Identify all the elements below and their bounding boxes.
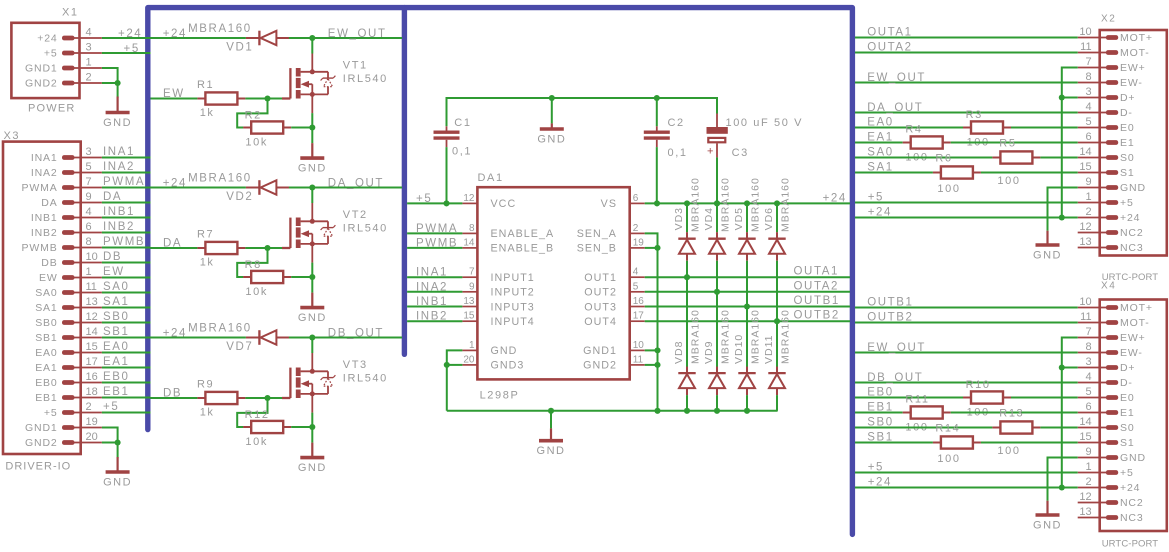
capacitor C3 100 uF 50 V (polarized) [707, 114, 728, 158]
DA1 pin 13 INPUT3 [462, 306, 477, 308]
wire DB from bus to R9 [151, 397, 198, 399]
resistor R12 10k [243, 421, 291, 433]
X4 pin 1 +5 [1106, 470, 1118, 475]
svg-text:SB0: SB0 [103, 311, 130, 323]
svg-text:+5: +5 [1120, 467, 1134, 479]
svg-text:10k: 10k [245, 137, 268, 149]
svg-text:EB1: EB1 [35, 392, 57, 404]
svg-text:1: 1 [86, 57, 92, 69]
svg-text:15: 15 [463, 311, 475, 322]
svg-text:DB_OUT: DB_OUT [867, 372, 923, 384]
svg-text:EA1: EA1 [867, 132, 894, 144]
svg-text:1k: 1k [200, 257, 215, 269]
svg-text:R6: R6 [935, 153, 952, 165]
svg-text:E0: E0 [1120, 122, 1135, 134]
svg-text:10: 10 [633, 340, 645, 351]
svg-text:NC2: NC2 [1120, 227, 1144, 239]
diode VD2 MBRA160 [246, 180, 290, 195]
wire VD4 cathode to +24 rail [716, 203, 718, 232]
svg-text:EW+: EW+ [1120, 332, 1146, 344]
svg-text:R3: R3 [966, 109, 983, 121]
svg-text:INB1: INB1 [103, 206, 135, 218]
diode VD6 MBRA160 (flyback high side) [768, 232, 785, 261]
svg-text:EA0: EA0 [35, 347, 57, 359]
X4 pin 15 S1 [1106, 440, 1118, 445]
svg-text:1k: 1k [200, 107, 215, 119]
wire SB1 from bus to R14 [855, 442, 933, 444]
wire OUTB1 from DA1 OUT3 to bus [645, 306, 850, 308]
wire drain of VT2 up to DA_OUT [311, 188, 313, 204]
junction GND1 [654, 347, 660, 353]
junction source/R2 [309, 124, 315, 130]
wire SB0 from X3 to bus [102, 322, 151, 324]
svg-text:R2: R2 [245, 110, 262, 122]
wire X2 EW+ pull to +24 column [1062, 68, 1078, 218]
wire VD8 anode to ground rail [686, 395, 688, 411]
wire VD5 anode to OUT3 [746, 261, 748, 307]
svg-text:10k: 10k [245, 286, 268, 298]
X2 pin 12 NC2 [1106, 230, 1118, 235]
svg-text:D+: D+ [1120, 92, 1135, 104]
wire R1 to gate [245, 98, 282, 100]
diode VD5 MBRA160 (flyback high side) [738, 232, 755, 261]
junction SEN_B [654, 245, 660, 251]
junction +24 / pull column [1059, 214, 1065, 220]
svg-text:+5: +5 [44, 407, 58, 419]
X3 pin 2 +5 [62, 410, 75, 415]
svg-text:MBRA160: MBRA160 [720, 177, 732, 232]
DA1 pin 6 VS [630, 202, 645, 204]
wire source of VT3 down to ground [311, 413, 313, 443]
svg-text:INB1: INB1 [31, 212, 58, 224]
svg-text:8: 8 [1085, 341, 1091, 353]
X3 pin 11 SA0 [62, 290, 75, 295]
X4 pin 7 EW+ [1106, 335, 1118, 340]
svg-text:DRIVER-IO: DRIVER-IO [5, 461, 71, 473]
svg-text:19: 19 [86, 416, 98, 428]
resistor R8 10k [243, 271, 291, 283]
svg-text:+24: +24 [37, 33, 57, 45]
wire +24 bus to VD7 [151, 337, 246, 339]
junction +24 / pull column [1059, 484, 1065, 490]
svg-text:EB1: EB1 [103, 386, 130, 398]
svg-text:SB0: SB0 [867, 417, 894, 429]
junction source/R12 [309, 424, 315, 430]
svg-text:SB1: SB1 [867, 432, 894, 444]
X2 pin 15 S1 [1106, 170, 1118, 175]
svg-text:S1: S1 [1120, 167, 1135, 179]
X3 pin 5 INA2 [62, 170, 75, 175]
wire R2 to source [291, 127, 312, 129]
svg-text:PWMA: PWMA [22, 182, 58, 194]
svg-text:4: 4 [1085, 371, 1091, 383]
svg-text:14: 14 [86, 326, 98, 338]
svg-text:OUTA2: OUTA2 [794, 280, 840, 292]
X3 pin 14 SB1 [62, 335, 75, 340]
svg-text:MBRA160: MBRA160 [780, 309, 792, 364]
svg-text:S0: S0 [1120, 152, 1135, 164]
wire X4 EW+ pull to +24 column [1062, 338, 1078, 488]
svg-text:GND1: GND1 [25, 63, 58, 75]
wire VD4 anode to OUT2 [716, 261, 718, 292]
connector X1 POWER [11, 23, 79, 98]
svg-text:MBRA160: MBRA160 [720, 309, 732, 364]
svg-text:4: 4 [633, 267, 639, 278]
svg-text:6: 6 [633, 193, 639, 204]
svg-text:OUTB2: OUTB2 [867, 312, 913, 324]
wire VD6 anode to OUT4 [776, 261, 778, 322]
wire X1 GND1/GND2 to ground [102, 68, 118, 98]
wire R11 to X4 pin [951, 412, 1078, 414]
DA1 pin 12 VCC [462, 202, 477, 204]
diode VD10 MBRA160 (flyback low side) [738, 367, 755, 396]
svg-text:+24: +24 [118, 28, 142, 40]
X2 pin 4 D- [1106, 110, 1118, 115]
wire +24 from X1 to VD1 [102, 37, 246, 39]
wire X4 GND to ground [1048, 458, 1078, 501]
svg-text:VS: VS [601, 198, 617, 210]
svg-text:SB0: SB0 [35, 317, 57, 329]
wire top rail to ground symbol [551, 98, 553, 123]
X3 pin 10 DB [62, 260, 75, 265]
junction OUT3 / diode column [744, 303, 750, 309]
wire INB2 from bus to DA1 [407, 320, 462, 322]
svg-text:1: 1 [1085, 191, 1091, 203]
svg-text:GND: GND [103, 477, 132, 489]
wire R3 to X2 pin [1011, 127, 1078, 129]
wire top ground rail [447, 98, 718, 126]
svg-text:INB1: INB1 [416, 296, 448, 308]
svg-text:SB1: SB1 [35, 332, 57, 344]
wire DA_OUT to X2 D- [855, 112, 1078, 114]
wire diode column down to VD8 [686, 277, 688, 373]
X3 pin 20 GND2 [62, 440, 75, 445]
DA1 pin 10 GND1 [630, 349, 645, 351]
svg-text:EW+: EW+ [1120, 62, 1146, 74]
svg-text:17: 17 [86, 356, 98, 368]
svg-text:GND: GND [298, 462, 327, 474]
junction C2/+24 rail [654, 200, 660, 206]
wire gate junction to R12 [237, 398, 267, 427]
DA1 pin 4 OUT1 [630, 276, 645, 278]
DA1 pin 16 OUT3 [630, 306, 645, 308]
diode VD1 MBRA160 [246, 31, 290, 46]
svg-text:19: 19 [633, 237, 645, 248]
svg-text:VD7: VD7 [226, 341, 253, 353]
wire C2 to +24 rail [656, 147, 658, 203]
svg-text:EW_OUT: EW_OUT [867, 72, 926, 84]
svg-text:PWMA: PWMA [103, 176, 145, 188]
svg-text:R14: R14 [935, 423, 960, 435]
svg-text:6: 6 [1085, 401, 1091, 413]
svg-text:8: 8 [86, 236, 92, 248]
svg-text:EA0: EA0 [103, 341, 130, 353]
svg-text:X1: X1 [62, 7, 79, 19]
svg-text:3: 3 [1085, 86, 1091, 98]
svg-text:MBRA160: MBRA160 [188, 323, 252, 335]
svg-text:GND: GND [537, 445, 566, 457]
wire source of VT1 down to ground [311, 113, 313, 143]
svg-text:15: 15 [1079, 161, 1091, 173]
svg-text:+24: +24 [823, 192, 847, 204]
transistor VT2 IRL540 [282, 203, 335, 263]
svg-text:+5: +5 [124, 43, 140, 55]
svg-text:R9: R9 [197, 379, 214, 391]
X2 pin 10 MOT+ [1106, 35, 1118, 40]
svg-text:EW: EW [103, 266, 125, 278]
svg-text:GND2: GND2 [583, 360, 617, 372]
junction C3/+24 rail [714, 200, 720, 206]
svg-text:+: + [707, 146, 715, 158]
wire X2 GND to ground [1048, 188, 1078, 231]
svg-text:3: 3 [86, 146, 92, 158]
svg-text:2: 2 [86, 72, 92, 84]
junction gate VT3 [264, 395, 270, 401]
svg-text:2: 2 [86, 401, 92, 413]
X2 pin 7 EW+ [1106, 65, 1118, 70]
svg-text:R13: R13 [999, 408, 1024, 420]
wire X2 D+ stub [1062, 97, 1078, 99]
svg-text:7: 7 [1085, 56, 1091, 68]
ground symbol VT1 source [300, 143, 324, 158]
svg-text:OUTB2: OUTB2 [794, 310, 840, 322]
wire EB1 from bus to R11 [855, 412, 903, 414]
wire INA1 from X3 to bus [102, 157, 151, 159]
svg-text:DA_OUT: DA_OUT [328, 178, 384, 190]
svg-text:VD1: VD1 [226, 42, 253, 54]
capacitor C2 0,1 [644, 126, 670, 147]
X4 pin 10 MOT+ [1106, 305, 1118, 310]
resistor R1 1k [197, 92, 245, 104]
wire EA1 from X3 to bus [102, 367, 151, 369]
junction +24 rail / VD3 [684, 200, 690, 206]
wire +24 rail from VS to bus [645, 202, 850, 204]
svg-text:POWER: POWER [28, 103, 76, 115]
X2 pin 6 E1 [1106, 140, 1118, 145]
wire DB_OUT to X4 D- [855, 382, 1078, 384]
svg-text:DA1: DA1 [478, 172, 504, 184]
IC DA1 L298P body [477, 187, 629, 379]
ground symbol X4 [1036, 501, 1060, 515]
svg-text:100: 100 [937, 453, 960, 465]
X4 pin 5 E0 [1106, 395, 1118, 400]
wire EW_OUT to X2 EW- [855, 82, 1078, 84]
wire EA0 from X3 to bus [102, 352, 151, 354]
X3 pin 7 PWMA [62, 185, 75, 190]
svg-text:GND1: GND1 [25, 422, 58, 434]
svg-text:INA2: INA2 [31, 167, 58, 179]
junction EW_OUT [309, 35, 315, 41]
DA1 pin 20 GND3 [462, 364, 477, 366]
resistor R3 100 [963, 121, 1011, 133]
diode VD4 MBRA160 (flyback high side) [708, 232, 725, 261]
wire X3 GND1/GND2 to ground [102, 428, 118, 459]
svg-text:11: 11 [86, 281, 97, 293]
wire OUTB1 to X4 MOT+ [855, 307, 1078, 309]
svg-text:VD11: VD11 [763, 335, 775, 365]
wire INB1 from bus to DA1 [407, 306, 462, 308]
wire R13 to X4 pin [1040, 427, 1077, 429]
svg-text:INA2: INA2 [103, 161, 135, 173]
svg-text:8: 8 [469, 223, 475, 234]
X2 pin 11 MOT- [1106, 50, 1118, 55]
svg-text:EB1: EB1 [867, 402, 894, 414]
svg-text:13: 13 [86, 296, 98, 308]
transistor VT1 IRL540 [282, 54, 335, 114]
svg-text:OUTA1: OUTA1 [794, 266, 840, 278]
DA1 pin 14 ENABLE_B [462, 247, 477, 249]
junction +24 rail / VD5 [744, 200, 750, 206]
svg-text:INA2: INA2 [416, 281, 448, 293]
svg-text:D-: D- [1120, 107, 1133, 119]
svg-text:10: 10 [1079, 296, 1091, 308]
resistor R2 10k [243, 121, 291, 133]
wire VD9 anode to ground rail [716, 395, 718, 411]
X2 pin 2 +24 [1106, 215, 1118, 220]
svg-text:MOT+: MOT+ [1120, 32, 1153, 44]
wire EW from X3 to bus [102, 277, 151, 279]
wire DB_OUT to bus [289, 337, 402, 339]
junction D+ / +24 column [1059, 94, 1065, 100]
svg-text:GND: GND [1120, 182, 1146, 194]
wire GND2 to ground column [645, 364, 658, 366]
svg-text:VD6: VD6 [763, 207, 775, 230]
svg-text:INB2: INB2 [103, 221, 135, 233]
svg-text:R8: R8 [245, 259, 262, 271]
svg-text:EW-: EW- [1120, 347, 1143, 359]
wire X4 D+ stub [1062, 367, 1078, 369]
X2 pin 13 NC3 [1106, 245, 1118, 250]
bus frame (top horizontal + left vertical) [148, 8, 853, 535]
wire R6 to X2 pin [981, 172, 1078, 174]
X2 pin 9 GND [1106, 185, 1118, 190]
resistor R9 1k [197, 392, 245, 404]
X4 pin 11 MOT- [1106, 320, 1118, 325]
svg-text:5: 5 [1085, 386, 1091, 398]
svg-text:INPUT2: INPUT2 [491, 287, 535, 299]
X1 pin 3 +5 [62, 51, 75, 56]
svg-text:GND2: GND2 [25, 437, 58, 449]
svg-text:EA0: EA0 [867, 117, 894, 129]
junction source/R8 [309, 274, 315, 280]
svg-text:INA1: INA1 [31, 152, 58, 164]
diode VD3 MBRA160 (flyback high side) [678, 232, 695, 261]
X4 pin 12 NC2 [1106, 500, 1118, 505]
junction top rail / gnd stub [549, 95, 555, 101]
svg-text:SEN_A: SEN_A [577, 228, 617, 240]
svg-text:+5: +5 [868, 462, 884, 474]
svg-text:GND: GND [491, 345, 518, 357]
svg-text:100: 100 [997, 445, 1020, 457]
svg-text:1k: 1k [200, 407, 215, 419]
svg-text:VD2: VD2 [226, 191, 253, 203]
svg-text:VT1: VT1 [343, 60, 368, 72]
X4 pin 4 D- [1106, 380, 1118, 385]
bus middle vertical [402, 8, 407, 355]
svg-text:7: 7 [86, 176, 92, 188]
X3 pin 1 EW [62, 275, 75, 280]
svg-text:MOT-: MOT- [1120, 317, 1150, 329]
svg-text:11: 11 [1080, 41, 1091, 53]
svg-text:OUT2: OUT2 [584, 287, 617, 299]
svg-text:GND: GND [298, 312, 327, 324]
svg-text:E0: E0 [1120, 392, 1135, 404]
svg-text:PWMA: PWMA [416, 223, 458, 235]
svg-text:16: 16 [633, 296, 645, 307]
wire +5 from X1 to bus [102, 52, 151, 54]
svg-text:DA: DA [163, 238, 182, 250]
wire +5 to X4 [855, 472, 1078, 474]
svg-text:DB_OUT: DB_OUT [328, 328, 384, 340]
wire VD5 cathode to +24 rail [746, 203, 748, 232]
X4 pin 8 EW- [1106, 350, 1118, 355]
svg-text:D+: D+ [1120, 362, 1135, 374]
svg-text:SA1: SA1 [103, 296, 130, 308]
wire OUTB2 from DA1 OUT4 to bus [645, 320, 850, 322]
junction OUT1 / diode column [684, 274, 690, 280]
svg-text:INA1: INA1 [103, 146, 135, 158]
diode VD9 MBRA160 (flyback low side) [708, 367, 725, 396]
svg-text:+24: +24 [1120, 212, 1140, 224]
wire PWMB from X3 to bus [102, 247, 151, 249]
svg-text:MBRA160: MBRA160 [188, 23, 252, 35]
junction GND2 [654, 362, 660, 368]
svg-text:11: 11 [633, 354, 644, 365]
svg-text:R4: R4 [905, 124, 922, 136]
svg-text:DA: DA [103, 191, 122, 203]
wire +5 from X3 to bus [102, 412, 151, 414]
ground symbol VT2 source [300, 293, 324, 308]
svg-text:SA1: SA1 [35, 302, 57, 314]
X3 pin 13 SA1 [62, 305, 75, 310]
svg-text:VD8: VD8 [673, 341, 685, 364]
svg-text:OUTB1: OUTB1 [867, 297, 913, 309]
svg-text:9: 9 [1085, 446, 1091, 458]
svg-text:+5: +5 [44, 48, 58, 60]
svg-text:VCC: VCC [491, 198, 517, 210]
junction OUT2 / diode column [714, 289, 720, 295]
wire C2 column upper [656, 98, 658, 126]
svg-text:+24: +24 [868, 477, 892, 489]
wire R9 to gate [245, 397, 282, 399]
junction top rail / C2 [654, 95, 660, 101]
X3 pin 19 GND1 [62, 425, 75, 430]
svg-text:14: 14 [463, 237, 475, 248]
svg-text:15: 15 [1079, 431, 1091, 443]
transistor VT3 IRL540 [282, 353, 335, 413]
svg-text:5: 5 [633, 281, 639, 292]
svg-text:2: 2 [633, 223, 639, 234]
svg-text:9: 9 [469, 281, 475, 292]
svg-text:GND: GND [298, 163, 327, 175]
svg-text:100: 100 [997, 175, 1020, 187]
ground symbol VT3 source [300, 443, 324, 458]
svg-text:VT3: VT3 [343, 359, 368, 371]
X3 pin 16 EB0 [62, 380, 75, 385]
svg-text:SB1: SB1 [103, 326, 130, 338]
X3 pin 18 EB1 [62, 395, 75, 400]
svg-text:+5: +5 [1120, 197, 1134, 209]
svg-text:13: 13 [1079, 506, 1091, 518]
svg-text:C2: C2 [668, 117, 685, 129]
wire EA0 from bus to R3 [855, 127, 963, 129]
svg-text:VD5: VD5 [733, 207, 745, 230]
svg-text:C1: C1 [454, 117, 471, 129]
X4 pin 13 NC3 [1106, 515, 1118, 520]
svg-text:OUTB1: OUTB1 [794, 295, 840, 307]
wire VD10 anode to ground rail [746, 395, 748, 411]
svg-text:R5: R5 [999, 138, 1016, 150]
